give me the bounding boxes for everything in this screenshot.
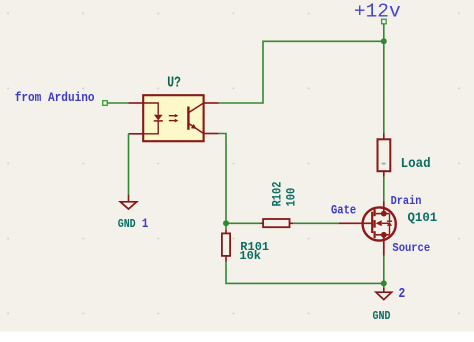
ground GND2 [373, 285, 406, 323]
resistor R102 100 [261, 182, 299, 228]
wire [226, 222, 261, 224]
wire [293, 222, 339, 224]
svg-text:GND: GND [373, 310, 391, 323]
svg-text:U?: U? [167, 74, 181, 91]
wire [219, 41, 384, 103]
svg-text:Load: Load [401, 156, 431, 172]
svg-text:2: 2 [398, 285, 405, 301]
svg-text:Gate: Gate [331, 204, 356, 218]
svg-text:1: 1 [142, 216, 148, 231]
wire [383, 256, 385, 284]
svg-text:100: 100 [285, 188, 299, 207]
transistor Q101 [331, 196, 438, 256]
svg-text:Source: Source [392, 243, 430, 256]
svg-text:+12v: +12v [354, 0, 401, 22]
wire [226, 262, 384, 284]
node from Arduino label [15, 90, 108, 105]
resistor R101 10k [222, 223, 269, 263]
svg-text:Q101: Q101 [408, 210, 438, 225]
resistor Load [378, 134, 431, 177]
wire [383, 283, 385, 287]
wire [383, 177, 385, 202]
ground GND1 [118, 134, 149, 232]
optocoupler U1 [128, 74, 218, 141]
node junction [381, 280, 387, 286]
node junction [223, 220, 229, 226]
svg-text:10k: 10k [239, 249, 261, 263]
node junction [381, 38, 387, 44]
svg-text:R102: R102 [271, 182, 285, 207]
wire [107, 102, 128, 104]
wire [383, 24, 385, 42]
wire [383, 41, 385, 133]
svg-text:GND: GND [118, 219, 136, 232]
wire [219, 134, 226, 224]
svg-text:from Arduino: from Arduino [15, 90, 95, 105]
power +12v [354, 0, 401, 23]
svg-text:Drain: Drain [391, 196, 422, 209]
